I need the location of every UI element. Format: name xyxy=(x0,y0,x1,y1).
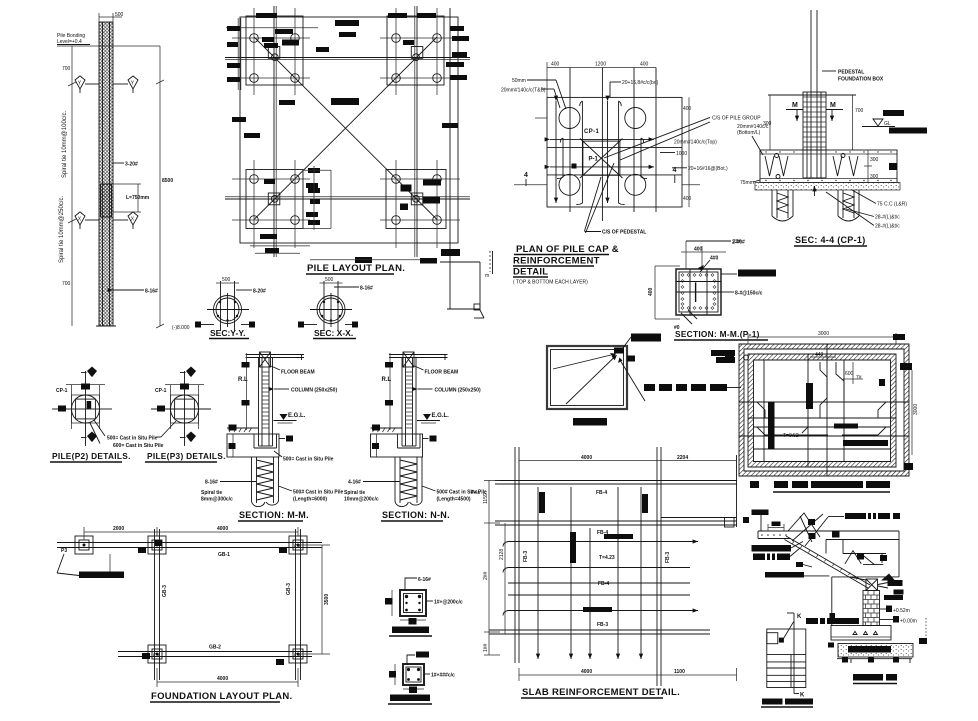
title xyxy=(381,510,450,521)
svg-text:500= Cast in Situ Pile: 500= Cast in Situ Pile xyxy=(283,457,334,463)
svg-text:REINFORCEMENT: REINFORCEMENT xyxy=(513,256,600,267)
svg-text:FB-4: FB-4 xyxy=(598,581,609,587)
bent bars xyxy=(765,156,788,176)
svg-text:SLAB REINFORCEMENT DETAIL.: SLAB REINFORCEMENT DETAIL. xyxy=(522,687,680,698)
svg-text:8-#@150c/c: 8-#@150c/c xyxy=(735,291,763,297)
left dim 400 xyxy=(648,266,680,319)
slab bars horizontal with arrows xyxy=(508,541,698,543)
svg-text:4000: 4000 xyxy=(217,526,228,532)
left edge marks xyxy=(725,351,734,357)
svg-text:CP-1: CP-1 xyxy=(56,388,68,394)
hooked bars vertical xyxy=(576,101,582,205)
svg-text:8mm@300c/c: 8mm@300c/c xyxy=(201,497,233,503)
dimension text bars xyxy=(227,13,469,264)
floor beam label xyxy=(415,366,459,376)
right leader to bar xyxy=(721,270,776,297)
svg-text:500: 500 xyxy=(115,12,124,18)
small tick near slab box xyxy=(743,517,749,523)
svg-text:GL: GL xyxy=(884,121,891,127)
svg-text:28-#(L)&t/c: 28-#(L)&t/c xyxy=(875,224,900,230)
svg-text:COLUMN (250x250): COLUMN (250x250) xyxy=(291,388,337,394)
compacted fill wedge xyxy=(881,574,895,581)
svg-text:PILE LAYOUT PLAN.: PILE LAYOUT PLAN. xyxy=(307,263,405,274)
leader 50mm xyxy=(512,78,566,109)
floor beams horizontal xyxy=(495,480,737,482)
staircase plan xyxy=(761,613,813,707)
svg-text:400: 400 xyxy=(694,247,703,253)
svg-text:(-)8.000: (-)8.000 xyxy=(172,325,190,331)
inner dims xyxy=(810,352,885,386)
svg-text:500= Cast in Situ Pile: 500= Cast in Situ Pile xyxy=(107,436,158,442)
svg-text:3-20#: 3-20# xyxy=(125,162,138,168)
title xyxy=(521,687,680,698)
leader C/S of pile group xyxy=(604,116,761,161)
sec Y-Y xyxy=(195,277,266,339)
pile P3 detail xyxy=(145,367,226,462)
bottom corner leader xyxy=(674,310,697,331)
section marks M-M xyxy=(786,102,843,121)
svg-text:M: M xyxy=(830,102,836,109)
column plan small square with leaders xyxy=(547,334,741,426)
diagonal brace lines xyxy=(254,37,437,220)
svg-text:Spiral tie: Spiral tie xyxy=(201,490,222,496)
rebar black marks xyxy=(539,492,648,612)
bottom dimension 4000 xyxy=(157,668,298,687)
svg-text:E.G.L.: E.G.L. xyxy=(432,413,450,419)
inner grid lines xyxy=(739,344,909,476)
svg-text:1100: 1100 xyxy=(674,669,685,675)
svg-text:300: 300 xyxy=(870,174,879,180)
svg-text:GB-1: GB-1 xyxy=(218,552,230,558)
leader to shared label xyxy=(161,421,176,437)
P3 leader note xyxy=(57,548,124,578)
title xyxy=(306,263,405,274)
svg-text:FLOOR BEAM: FLOOR BEAM xyxy=(425,370,459,376)
svg-text:FB-4: FB-4 xyxy=(596,490,607,496)
pile shaft with spiral hatch xyxy=(99,22,113,326)
staircase section detail xyxy=(752,510,928,684)
corner labels xyxy=(631,334,661,342)
pedestal foundation box label xyxy=(822,70,884,83)
svg-text:N: N xyxy=(90,372,94,378)
section marker Y left xyxy=(75,76,99,93)
footing upper block xyxy=(828,626,891,648)
svg-text:GB-3: GB-3 xyxy=(162,585,168,597)
dim 700 xyxy=(853,95,864,150)
top dimension 3000 xyxy=(748,331,905,344)
svg-text:3000: 3000 xyxy=(818,331,829,337)
svg-text:6-16#: 6-16# xyxy=(418,577,431,583)
svg-text:8-16#: 8-16# xyxy=(360,286,373,292)
svg-text:3000: 3000 xyxy=(913,404,919,415)
svg-text:FOUNDATION LAYOUT PLAN.: FOUNDATION LAYOUT PLAN. xyxy=(151,691,292,702)
svg-text:20mm#140c/c(T&B): 20mm#140c/c(T&B) xyxy=(501,88,546,94)
svg-text:FB-3: FB-3 xyxy=(523,551,529,562)
section marker Y right xyxy=(113,76,138,93)
svg-text:2204: 2204 xyxy=(677,455,688,461)
svg-text:50mm: 50mm xyxy=(512,78,526,84)
spiral tie label xyxy=(201,490,233,503)
stair beam box xyxy=(866,579,878,591)
svg-text:C/S OF PEDESTAL: C/S OF PEDESTAL xyxy=(602,230,646,236)
labels right of piles xyxy=(826,190,907,230)
svg-text:4000: 4000 xyxy=(217,676,228,682)
svg-text:m: m xyxy=(485,273,489,279)
pedestal with ties xyxy=(803,92,826,178)
mid dimension chain bottom group xyxy=(313,166,315,230)
pedestal P-1 xyxy=(572,129,623,178)
svg-text:8-20#: 8-20# xyxy=(253,289,266,295)
svg-text:2128: 2128 xyxy=(499,549,505,560)
tank wall plan detail xyxy=(725,331,919,492)
title xyxy=(150,691,292,702)
tie dots xyxy=(681,274,716,310)
svg-text:Spiral tie 10mm@100c/c.: Spiral tie 10mm@100c/c. xyxy=(62,111,68,178)
overall depth dimension xyxy=(156,46,173,328)
svg-text:R.L: R.L xyxy=(382,377,392,383)
blinding layer xyxy=(755,183,900,191)
svg-text:400: 400 xyxy=(683,106,692,112)
section M-M of pedestal P-1 xyxy=(648,240,776,341)
pile length label xyxy=(422,486,487,503)
beam end box top right xyxy=(725,518,735,528)
outer hatched wall ring xyxy=(739,344,909,476)
svg-text:CP-1: CP-1 xyxy=(155,388,167,394)
title xyxy=(674,329,768,340)
svg-text:L=750mm: L=750mm xyxy=(126,195,150,201)
svg-text:Spiral tie: Spiral tie xyxy=(344,490,365,496)
svg-text:400: 400 xyxy=(648,287,654,296)
foundation layout plan xyxy=(57,526,330,702)
slab bars vertical with arrows xyxy=(537,487,539,659)
svg-text:8500: 8500 xyxy=(162,178,173,184)
svg-text:700: 700 xyxy=(62,66,71,72)
pile cap plan title block xyxy=(513,244,619,286)
title xyxy=(238,510,309,521)
section N-N column and pile xyxy=(344,352,487,521)
pile bonding level note xyxy=(57,33,160,46)
inner grid xyxy=(689,269,691,315)
pile cap body xyxy=(760,150,897,183)
grid verticals xyxy=(569,68,571,213)
svg-text:FB-4: FB-4 xyxy=(597,530,608,536)
svg-text:E.G.L.: E.G.L. xyxy=(288,413,306,419)
cap level label xyxy=(279,436,293,442)
svg-text:2000: 2000 xyxy=(113,526,124,532)
svg-text:SECTION: M-M.(P-1): SECTION: M-M.(P-1) xyxy=(675,329,760,339)
pile group boxes xyxy=(246,16,446,229)
svg-text:1##: 1## xyxy=(483,643,489,652)
svg-text:K: K xyxy=(797,614,802,620)
title sec 4-4 xyxy=(733,235,867,246)
svg-text:4-16#: 4-16# xyxy=(348,480,361,486)
ground level annotation xyxy=(862,110,927,134)
svg-text:600= Cast in Situ Pile: 600= Cast in Situ Pile xyxy=(113,443,164,449)
svg-text:P-1: P-1 xyxy=(589,157,599,163)
inner hatched wall ring xyxy=(748,354,896,467)
svg-text:500: 500 xyxy=(325,277,334,283)
slab reinforcement detail xyxy=(471,447,737,698)
label 8-20 dia xyxy=(113,162,138,168)
svg-text:1200: 1200 xyxy=(595,62,606,68)
plan title xyxy=(761,699,813,708)
section marker X left xyxy=(75,212,99,229)
leader 20mm bars top+bottom xyxy=(501,88,560,109)
svg-text:700: 700 xyxy=(855,108,864,114)
right dim of cap xyxy=(864,150,897,183)
section M-M column and pile xyxy=(201,352,344,521)
leader detail right of plan xyxy=(440,8,493,318)
cap outline xyxy=(547,97,682,207)
svg-text:N: N xyxy=(189,372,193,378)
rebar extent arrows horizontal xyxy=(550,138,654,140)
column top right xyxy=(289,536,307,554)
pile toe level xyxy=(96,325,190,331)
inner horizontals xyxy=(547,146,682,148)
75mm label xyxy=(740,180,760,186)
pile length label xyxy=(279,486,344,503)
column section detail C1 xyxy=(385,577,463,636)
column bottom mid xyxy=(148,645,166,663)
svg-text:GB-3: GB-3 xyxy=(286,583,292,595)
pile layout plan xyxy=(225,6,470,274)
svg-text:GB-2: GB-2 xyxy=(209,645,221,651)
svg-text:K: K xyxy=(800,693,805,699)
pile P2 detail xyxy=(50,367,164,462)
bottom title bars xyxy=(750,481,890,488)
north diamond xyxy=(180,367,196,378)
leader C/S of pedestal xyxy=(585,163,647,236)
right dimension 3500 xyxy=(298,545,330,654)
north diamond xyxy=(81,367,97,378)
svg-text:SECTION: N-N.: SECTION: N-N. xyxy=(382,510,450,520)
svg-text:1159: 1159 xyxy=(483,493,489,504)
top dimension 400 1200 400 xyxy=(547,62,656,98)
column label xyxy=(418,388,481,394)
brick masonry pillar xyxy=(863,591,880,626)
floor beams vertical xyxy=(514,447,516,663)
svg-text:500: 500 xyxy=(222,277,231,283)
svg-text:M: M xyxy=(792,102,798,109)
label 8-16 dia xyxy=(113,289,158,295)
svg-text:4000: 4000 xyxy=(581,455,592,461)
top cut line xyxy=(768,94,856,96)
top level note bar xyxy=(752,510,769,516)
500 cast in situ pile label xyxy=(274,451,334,463)
rebar black marks xyxy=(768,383,888,449)
svg-text:R.L: R.L xyxy=(238,377,248,383)
leaders to labels xyxy=(94,420,105,436)
svg-text:8-16#: 8-16# xyxy=(145,289,158,295)
svg-text:600: 600 xyxy=(845,371,854,377)
left dim 300 xyxy=(763,95,772,150)
stepped bar paths xyxy=(757,362,886,435)
svg-text:FB-3: FB-3 xyxy=(597,622,608,628)
column section detail C2 xyxy=(388,652,455,705)
footing title xyxy=(853,674,897,684)
svg-text:+0.00m: +0.00m xyxy=(900,619,917,625)
south diamond xyxy=(180,432,196,443)
floor beam label xyxy=(271,366,315,376)
svg-text:SEC: 4-4 (CP-1): SEC: 4-4 (CP-1) xyxy=(795,235,866,245)
top dims xyxy=(681,240,745,273)
base lines xyxy=(837,657,912,663)
pile right under cap xyxy=(838,190,859,221)
sec X-X xyxy=(298,277,373,339)
svg-text:N: N xyxy=(90,437,94,443)
tick marks xyxy=(138,547,287,665)
svg-text:SEC: X-X.: SEC: X-X. xyxy=(314,328,353,338)
svg-text:PLAN OF PILE CAP &: PLAN OF PILE CAP & xyxy=(516,244,619,255)
svg-text:P3: P3 xyxy=(61,548,67,554)
svg-text:1#+@200c/c: 1#+@200c/c xyxy=(434,600,463,606)
right leaders and labels xyxy=(878,580,904,600)
svg-text:Spiral tie 10mm@250c/c.: Spiral tie 10mm@250c/c. xyxy=(59,196,65,263)
svg-text:T=4.23: T=4.23 xyxy=(599,555,615,561)
column P1 xyxy=(75,536,93,554)
svg-text:FB-3: FB-3 xyxy=(665,552,671,563)
svg-text:2-#0#: 2-#0# xyxy=(732,240,745,246)
svg-text:20+16#16@(Bot.): 20+16#16@(Bot.) xyxy=(688,166,728,172)
waist slab sloped xyxy=(785,536,871,588)
right boundary xyxy=(898,531,900,577)
pile group grid lines xyxy=(232,8,460,248)
top cap dim 500 xyxy=(99,12,124,22)
svg-text:2##: 2## xyxy=(483,571,489,580)
svg-text:4000: 4000 xyxy=(581,669,592,675)
right dashed label row xyxy=(644,384,727,391)
right dimension 3000 xyxy=(900,363,919,470)
right dotted dim xyxy=(919,618,927,644)
section line K-K xyxy=(783,613,805,699)
4-16 bars label xyxy=(348,480,400,486)
column bottom right xyxy=(289,645,307,663)
svg-text:4: 4 xyxy=(524,172,528,179)
piles xyxy=(559,108,580,129)
column squares at grid intersections xyxy=(268,47,423,205)
level labels right xyxy=(880,606,917,625)
plan of pile cap CP-1 xyxy=(501,62,761,236)
landing dim xyxy=(768,522,784,532)
cap level label xyxy=(423,436,437,442)
svg-text:+0.52m: +0.52m xyxy=(893,608,910,614)
svg-text:(Length=4500): (Length=4500) xyxy=(437,497,471,503)
svg-text:1#+###c/c: 1#+###c/c xyxy=(431,673,455,679)
svg-text:400: 400 xyxy=(551,62,560,68)
column top mid xyxy=(148,536,166,554)
svg-text:FOUNDATION BOX: FOUNDATION BOX xyxy=(838,77,884,83)
column label xyxy=(274,388,337,394)
spiral tie label xyxy=(344,490,379,503)
piles (circles) xyxy=(250,34,442,225)
section mark 4 left xyxy=(514,172,547,186)
lap length dim L=750mm xyxy=(113,184,150,212)
svg-text:700: 700 xyxy=(62,281,71,287)
rebar extent arrows vertical xyxy=(555,101,557,203)
upper small label right xyxy=(711,350,735,363)
svg-text:8-16#: 8-16# xyxy=(205,480,218,486)
svg-text:400: 400 xyxy=(683,196,692,202)
svg-text:(Bottom/L): (Bottom/L) xyxy=(737,130,761,136)
svg-text:SEC:Y-Y.: SEC:Y-Y. xyxy=(210,328,245,338)
svg-text:N: N xyxy=(189,437,193,443)
svg-text:C/S OF PILE GROUP: C/S OF PILE GROUP xyxy=(712,116,761,122)
leader arrows to corner xyxy=(553,355,613,370)
svg-text:PILE(P2) DETAILS.: PILE(P2) DETAILS. xyxy=(52,451,131,461)
left flight labels xyxy=(752,542,804,561)
svg-text:CP-1: CP-1 xyxy=(584,129,600,135)
svg-text:1000: 1000 xyxy=(676,151,687,157)
section mark 4 right xyxy=(673,167,701,185)
landing slab xyxy=(758,531,899,539)
svg-text:440: 440 xyxy=(815,352,824,358)
svg-text:400: 400 xyxy=(640,62,649,68)
waist slab label xyxy=(828,513,900,519)
column stub above xyxy=(810,10,812,92)
svg-text:PEDESTAL: PEDESTAL xyxy=(838,70,864,76)
leader 20+16 bars bottom xyxy=(610,80,659,97)
svg-text:SECTION: M-M.: SECTION: M-M. xyxy=(239,510,309,520)
top dimension xyxy=(84,526,298,540)
pile left under cap xyxy=(772,190,793,221)
svg-text:DETAIL: DETAIL xyxy=(513,267,548,278)
svg-text:300: 300 xyxy=(870,157,879,163)
svg-text:(Length=6000): (Length=6000) xyxy=(293,497,327,503)
svg-text:28-#(L)&t/c: 28-#(L)&t/c xyxy=(875,215,900,221)
svg-text:COLUMN (250x250): COLUMN (250x250) xyxy=(435,388,481,394)
south diamond xyxy=(81,432,97,443)
svg-text:FLOOR BEAM: FLOOR BEAM xyxy=(281,370,315,376)
right dim 400/400 xyxy=(683,97,692,207)
leader bottom bars left xyxy=(737,124,769,155)
svg-text:75mm: 75mm xyxy=(740,180,754,186)
intermediate landing steps xyxy=(765,540,899,581)
svg-text:20mm#140c/c(Top): 20mm#140c/c(Top) xyxy=(674,140,717,146)
svg-text:10mm@200c/c: 10mm@200c/c xyxy=(344,497,379,503)
footing base slab xyxy=(838,644,913,658)
left dimension chain xyxy=(483,480,505,655)
section marker X right xyxy=(113,212,138,229)
up arrow under cap xyxy=(814,186,816,196)
svg-text:20+16,8#c/c(bo): 20+16,8#c/c(bo) xyxy=(622,80,659,86)
grid axis lines xyxy=(225,6,470,257)
8-16 bars label xyxy=(205,480,256,486)
pile cap outline xyxy=(240,17,458,243)
bottom dimension xyxy=(519,668,737,681)
upper flight lattice xyxy=(788,513,840,546)
svg-text:3500: 3500 xyxy=(324,594,330,605)
svg-text:PILE(P3) DETAILS.: PILE(P3) DETAILS. xyxy=(147,451,226,461)
top dimension xyxy=(519,455,737,470)
right side labels xyxy=(660,140,728,173)
svg-text:4: 4 xyxy=(673,167,677,174)
svg-text:C#: C# xyxy=(153,653,160,659)
bottom label xyxy=(573,418,607,426)
svg-text:75 C.C (L&R): 75 C.C (L&R) xyxy=(877,202,907,208)
svg-text:( TOP & BOTTOM EACH LAYER): ( TOP & BOTTOM EACH LAYER) xyxy=(513,280,588,286)
svg-text:4#0: 4#0 xyxy=(710,256,719,262)
svg-text:7#: 7# xyxy=(856,375,862,381)
svg-text:T=0.52: T=0.52 xyxy=(783,433,799,439)
left dimension chain xyxy=(62,46,76,326)
pile elevation detail xyxy=(57,12,190,331)
left label row xyxy=(806,577,859,626)
grade beams xyxy=(57,542,322,544)
svg-text:P4a: P4a xyxy=(471,490,480,496)
sec 4-4 pedestal and pile cap section xyxy=(733,10,927,246)
svg-text:500# Cast in Situ Pile: 500# Cast in Situ Pile xyxy=(293,490,344,496)
